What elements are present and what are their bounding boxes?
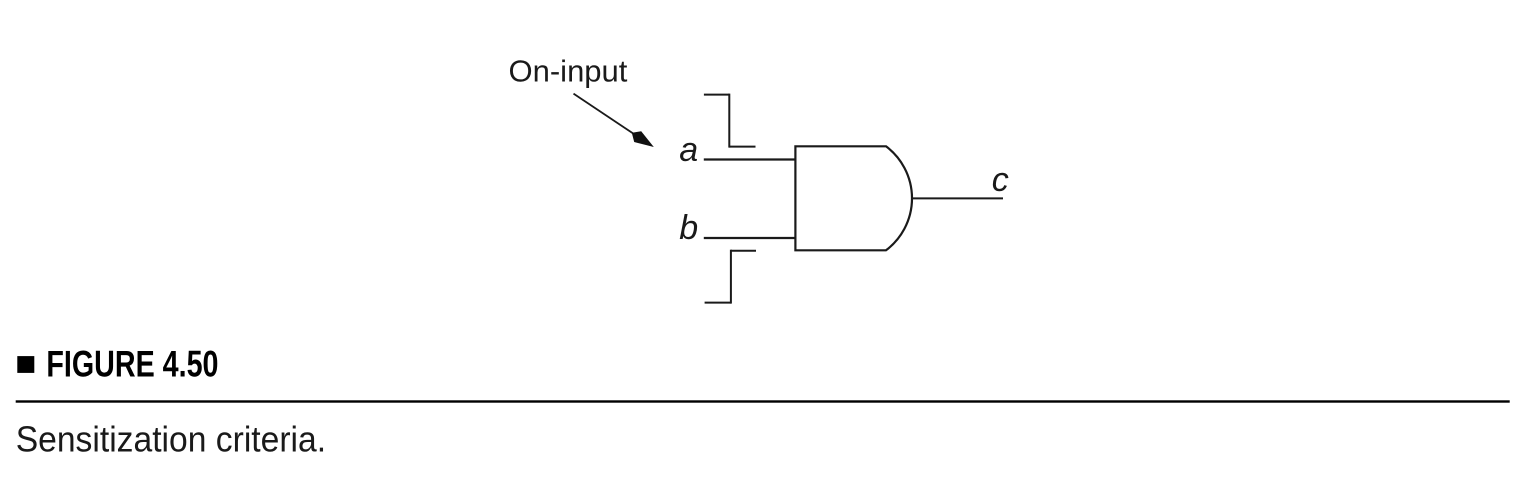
svg-text:b: b	[679, 209, 698, 247]
waveform on input b: low-level segment	[705, 302, 731, 304]
horizontal rule	[16, 400, 1510, 402]
svg-text:FIGURE 4.50: FIGURE 4.50	[46, 344, 218, 385]
svg-text:Sensitization criteria.: Sensitization criteria.	[16, 419, 326, 460]
waveform on input a: falling-edge segment	[728, 94, 730, 148]
wire: input a to AND gate	[704, 158, 797, 160]
waveform on input a: low-level segment	[729, 146, 755, 148]
wire: AND gate output c	[912, 197, 1004, 199]
waveform on input a: high-level segment	[704, 94, 729, 96]
leader arrow line from "On-input" to input a	[574, 94, 634, 134]
waveform on input b: high-level segment	[731, 250, 756, 252]
wire: input b to AND gate	[704, 237, 797, 239]
svg-text:a: a	[679, 131, 698, 169]
AND gate U1	[795, 146, 912, 250]
figure heading bullet	[17, 356, 34, 373]
waveform on input b: rising-edge segment	[730, 250, 732, 304]
svg-text:On-input: On-input	[509, 53, 628, 88]
svg-text:c: c	[992, 161, 1009, 199]
leader arrowhead	[632, 131, 654, 147]
